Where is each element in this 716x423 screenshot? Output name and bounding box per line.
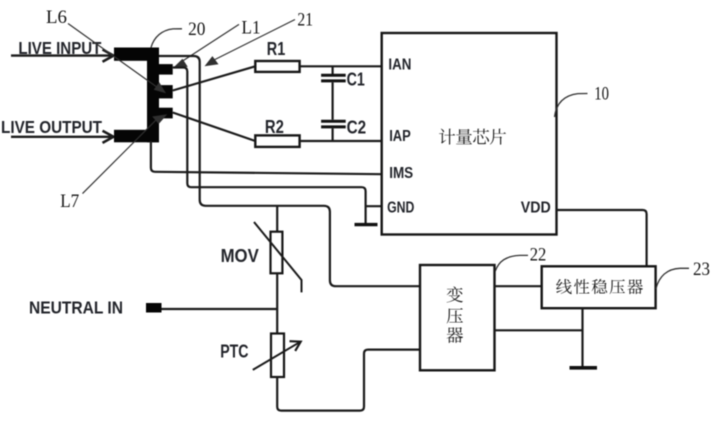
- wire NEUTRAL IN to MOV/PTC junction: [162, 308, 278, 310]
- pin label IAN: [388, 57, 411, 74]
- svg-text:PTC: PTC: [220, 342, 248, 362]
- wire regulator ground drop: [581, 308, 583, 366]
- wire net 21: shunt top bar -> down -> right -> down -> transformer top input: [159, 56, 420, 286]
- transformer text 变压器 (vertical): [447, 286, 464, 343]
- wire neutral node down to PTC top: [276, 309, 278, 334]
- svg-text:21: 21: [297, 11, 313, 31]
- svg-text:C2: C2: [347, 117, 367, 137]
- wire C2 bottom to IAP net: [332, 128, 334, 141]
- svg-text:IMS: IMS: [389, 165, 413, 182]
- svg-text:22: 22: [530, 246, 547, 266]
- varistor MOV: [221, 222, 302, 292]
- pin label IMS: [389, 165, 413, 182]
- regulator text 线性稳压器: [556, 279, 643, 294]
- wire R1 right to chip IAN pin: [300, 65, 382, 67]
- wire LIVE INPUT with arrowhead into shunt: [11, 50, 114, 62]
- svg-text:L1: L1: [242, 19, 261, 39]
- wire net21 branch down to MOV top: [276, 206, 278, 232]
- label 20 with curved leader to shunt top bar: [151, 20, 205, 48]
- label 22 with curved leader to transformer: [495, 246, 546, 271]
- svg-text:L6: L6: [46, 8, 67, 28]
- thermistor PTC (with diagonal arrow): [220, 334, 301, 378]
- ground symbol under regulator: [570, 366, 598, 370]
- svg-text:R1: R1: [267, 39, 286, 59]
- svg-text:20: 20: [188, 20, 205, 40]
- capacitor C1: [321, 66, 365, 89]
- node NEUTRAL IN label: [29, 297, 123, 317]
- linear regulator 23 box: [542, 266, 656, 308]
- label 10 with curved leader to chip: [555, 84, 610, 117]
- svg-text:GND: GND: [387, 200, 414, 217]
- pin label VDD: [521, 200, 551, 217]
- shunt resistor 20 (black manganin bracket with three sense tabs): [114, 48, 173, 143]
- wire IMS: shunt bottom bar -> down -> right to chip IMS pin: [151, 141, 382, 174]
- wire R2 right to chip IAP pin: [300, 140, 382, 142]
- wire GND stub from ground node to chip GND pin: [366, 205, 382, 207]
- wire PTC bottom -> down -> right -> up -> transformer bottom input: [277, 350, 420, 411]
- svg-text:10: 10: [594, 84, 609, 104]
- label L1 with leader arrow to tab1: [174, 19, 261, 68]
- resistor R1: [255, 39, 299, 72]
- label 21 with leader arrow to net-21 wire: [205, 11, 314, 66]
- wire LIVE OUTPUT with arrowhead into shunt: [11, 131, 114, 143]
- svg-text:23: 23: [693, 260, 710, 280]
- resistor R2: [255, 117, 299, 147]
- label 23 with curved leader to regulator: [656, 260, 710, 289]
- label L7 with leader arrow to tab3: [60, 114, 167, 212]
- metering chip U10 box: [382, 33, 557, 235]
- wire VDD: chip VDD pin -> right -> down to regulator top: [557, 210, 647, 266]
- svg-text:VDD: VDD: [521, 200, 551, 217]
- svg-text:C1: C1: [347, 69, 365, 89]
- svg-text:IAN: IAN: [388, 57, 411, 74]
- wire transformer top output to linear regulator: [495, 285, 542, 287]
- ground symbol near chip GND: [355, 223, 378, 226]
- pin label IAP: [389, 128, 411, 145]
- pin label GND: [387, 200, 414, 217]
- wire MOV bottom to neutral node: [276, 273, 278, 309]
- node LIVE INPUT label: [18, 38, 101, 58]
- label L6 with leader arrow to tab2: [46, 8, 166, 93]
- wire C1 bottom to C2 top: [332, 82, 334, 119]
- svg-text:R2: R2: [265, 117, 284, 137]
- terminal NEUTRAL IN (black square): [146, 303, 162, 313]
- node LIVE OUTPUT label: [1, 117, 102, 137]
- svg-text:NEUTRAL IN: NEUTRAL IN: [29, 297, 123, 317]
- svg-text:LIVE OUTPUT: LIVE OUTPUT: [1, 117, 102, 137]
- wire tab3 to R2 left: [173, 113, 256, 142]
- svg-text:IAP: IAP: [389, 128, 411, 145]
- svg-text:L7: L7: [60, 192, 79, 212]
- wire transformer bottom output to regulator ground line: [495, 329, 583, 331]
- wire tab2 to R1 left: [173, 66, 256, 90]
- wire from tab1 (L1) -> down -> right to ground node: [173, 68, 366, 224]
- transformer 22 box: [420, 265, 495, 370]
- svg-text:MOV: MOV: [221, 246, 259, 266]
- capacitor C2: [321, 117, 366, 137]
- chip name text 计量芯片 (metering chip): [439, 129, 506, 145]
